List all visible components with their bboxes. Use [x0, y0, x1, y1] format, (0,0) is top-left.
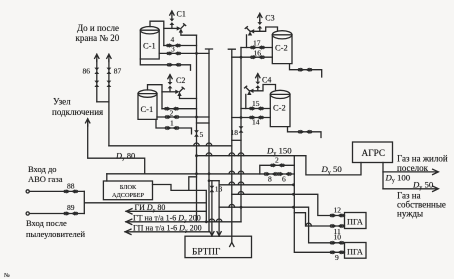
valve 4: [167, 43, 181, 47]
arrow ГТ: [126, 219, 132, 224]
valve 5: [194, 130, 199, 136]
node circle 89: [26, 212, 29, 215]
wire Dy50 line to AGRS: [306, 156, 361, 175]
vessel С-1 no.2: [138, 94, 157, 120]
valve 2 (C-1 group): [165, 107, 179, 111]
wire valve 2 line: [162, 108, 197, 110]
wire adsorber header: [107, 173, 294, 175]
hop Dy150 over K4: [238, 153, 244, 156]
wire 88-89 junction to impulse header: [84, 191, 206, 213]
valve 17: [251, 45, 265, 49]
wire vent tee C2: [162, 91, 176, 93]
node dot K1 x valve3 line: [195, 52, 198, 55]
vessel С-1 no.1: [140, 30, 159, 59]
hop Dy150 over K3: [229, 153, 235, 156]
svg-text:88: 88: [67, 181, 75, 190]
svg-text:C4: C4: [262, 75, 271, 84]
header K3: [228, 49, 235, 242]
wire output line 1: [383, 171, 438, 173]
svg-text:C3: C3: [265, 14, 274, 23]
wire drop1 to БРТПГ: [211, 181, 213, 237]
vent arrow C4: [256, 74, 260, 81]
hop F2 over K4: [238, 192, 244, 195]
wire drain C-2 no.1: [290, 64, 322, 77]
node dot K4 x valve16 line: [240, 56, 243, 59]
text "Вход до АВО газа": [28, 164, 63, 184]
hop F1 over K4: [238, 182, 244, 185]
wire 87 to header K3: [109, 145, 232, 147]
svg-text:С-2: С-2: [275, 43, 288, 53]
valve 87a: [107, 68, 112, 74]
arrow ГИ: [126, 209, 132, 214]
wire vent tee C1: [164, 27, 177, 29]
wire regulator outlet to header K1: [181, 32, 197, 35]
wire riser C-1 no.2: [148, 85, 163, 109]
wire Dy150 header: [197, 155, 306, 157]
text "Узел подключения": [52, 96, 103, 117]
wire valve 4 line: [164, 45, 197, 47]
svg-text:89: 89: [67, 203, 75, 212]
wire adsorber outlet: [153, 185, 207, 222]
node 86 riser: [96, 60, 98, 102]
wire V1 bypass drop to valve 9: [294, 174, 344, 252]
svg-text:Dу 150: Dу 150: [266, 146, 292, 158]
box БЛОК АДСОРБЕР: [103, 181, 152, 200]
svg-text:ПГА: ПГА: [347, 248, 363, 257]
hop ГТ over drop1: [209, 219, 215, 222]
svg-text:С-1: С-1: [143, 41, 156, 51]
wire line 88: [29, 190, 84, 192]
inlet arrow БРТПГ right: [217, 232, 221, 236]
node dot F1 x V1: [292, 183, 295, 186]
svg-text:До и после: До и после: [77, 23, 119, 33]
vent valve C2: [168, 82, 173, 88]
svg-text:крана № 20: крана № 20: [76, 33, 120, 43]
valve 1: [165, 126, 179, 130]
hop Dy150 over K2: [206, 153, 212, 156]
svg-text:Dу 100: Dу 100: [385, 173, 411, 185]
svg-text:С-2: С-2: [273, 103, 286, 113]
text Газ на собственные нужды: [397, 191, 446, 219]
wire regulator outlet to valve17 line: [246, 35, 248, 48]
svg-text:С-1: С-1: [141, 104, 154, 114]
wire drain C-2 no.2: [288, 127, 322, 138]
svg-text:Узел: Узел: [53, 96, 71, 106]
wire valve 17 line: [241, 47, 272, 49]
valve 88: [64, 189, 78, 193]
vessel С-2 no.2: [270, 94, 290, 126]
vent arrow C1: [170, 11, 174, 18]
wire regulator loop right side: [293, 156, 295, 174]
node circle 88: [26, 190, 29, 193]
valve 11: [330, 224, 344, 228]
wire line 89: [29, 213, 84, 215]
svg-text:АДСОРБЕР: АДСОРБЕР: [112, 192, 145, 199]
svg-text:18: 18: [231, 128, 239, 137]
vent end 87: [107, 54, 111, 61]
vent valve C3: [257, 22, 262, 28]
wire adsorber branch to K1: [189, 177, 197, 191]
wire drain C-1 no.2: [156, 119, 192, 133]
svg-text:№: №: [4, 273, 10, 279]
wire riser C-1 no.1: [150, 21, 164, 45]
svg-text:нужды: нужды: [397, 209, 423, 219]
wire drop2 to БРТПГ: [218, 181, 220, 237]
svg-text:86: 86: [83, 67, 91, 76]
wire ГИ impulse line: [126, 210, 206, 212]
node dot K4 x valve14 line: [240, 116, 243, 119]
svg-text:Вход до: Вход до: [28, 164, 57, 174]
svg-text:АВО газа: АВО газа: [28, 174, 63, 184]
box ПГА upper: [345, 213, 367, 229]
text "Вход после пылеуловителей": [26, 218, 85, 239]
hop over K1: [194, 143, 200, 146]
wire K3-K4 bridge: [232, 139, 241, 141]
vent valve C4: [255, 82, 260, 88]
wire drain C-1 no.1: [140, 59, 190, 70]
svg-text:ГИ Dу 80: ГИ Dу 80: [135, 203, 166, 214]
svg-text:ГП на т/а 1-6 Dу 200: ГП на т/а 1-6 Dу 200: [133, 224, 202, 235]
svg-text:Газ на жилой: Газ на жилой: [397, 154, 448, 164]
svg-text:3: 3: [171, 44, 175, 53]
header K2: [206, 49, 213, 232]
wire valve 2 bypass line: [260, 165, 295, 174]
wire output line 2: [383, 188, 438, 190]
header K4: [240, 48, 242, 222]
hop ГТ over drop2: [216, 219, 222, 222]
node dot F3 x K4: [240, 206, 243, 209]
svg-text:подключения: подключения: [52, 107, 103, 117]
regulator valve C-2 no.1: [245, 27, 254, 36]
inlet arrow БРТПГ left: [210, 232, 214, 236]
wire connection node down: [88, 122, 145, 174]
wire ПГА feed F2: [232, 194, 345, 215]
wire regen stub off K2: [209, 180, 219, 182]
box ПГА lower: [345, 243, 367, 259]
svg-text:Dу 50: Dу 50: [412, 179, 434, 191]
svg-text:11: 11: [334, 227, 341, 236]
valve 12: [330, 213, 344, 217]
header K1: [196, 35, 198, 222]
svg-text:17: 17: [253, 38, 261, 47]
svg-text:9: 9: [335, 253, 339, 262]
svg-text:Вход после: Вход после: [26, 218, 67, 228]
text "До и после крана № 20": [76, 23, 120, 43]
valve 9: [330, 250, 344, 254]
svg-text:1: 1: [170, 118, 174, 127]
wire valve 3 line: [159, 52, 209, 54]
mid valve C-1 no.2: [165, 115, 179, 119]
arrow K3 into БРТПГ: [230, 242, 234, 246]
node dot K2 x stub: [208, 179, 211, 182]
valve 86a: [94, 68, 99, 74]
hop over K2: [206, 143, 212, 146]
arrow ГП: [125, 229, 131, 234]
valve 87b: [107, 81, 112, 87]
wire regulator outlet to valve15 line: [245, 94, 247, 108]
svg-text:14: 14: [252, 118, 260, 127]
wire K1-K2 bridge: [197, 122, 210, 124]
regulator valve C-2 no.2: [245, 86, 254, 95]
svg-text:поселок: поселок: [397, 163, 429, 173]
valve 2 (reduction): [271, 163, 285, 167]
svg-text:C1: C1: [177, 10, 186, 19]
valve 3: [167, 51, 181, 55]
svg-text:Dу 50: Dу 50: [321, 164, 343, 176]
vent arrow C2: [168, 75, 172, 82]
valve 15: [250, 106, 264, 110]
valve 13: [210, 186, 215, 192]
regulator valve C-1 no.2: [175, 87, 184, 96]
node dot F2 x V1: [292, 193, 295, 196]
svg-text:16: 16: [254, 48, 262, 57]
valve 86b: [94, 81, 99, 87]
valve 8: [264, 172, 278, 176]
wire ПГА feed F1: [219, 184, 293, 186]
hop valve11 line over F3 drop: [306, 223, 312, 226]
svg-text:5: 5: [200, 130, 204, 139]
vent arrow C3: [258, 13, 262, 20]
regulator valve C-1 no.1: [177, 24, 186, 33]
hop F1 over K3: [229, 182, 235, 185]
valve 14: [250, 115, 264, 119]
hop adsorber header over K3: [229, 171, 235, 174]
node dot F3 x V1: [292, 206, 295, 209]
svg-text:АГРС: АГРС: [362, 149, 386, 159]
wire riser C-2 no.1: [250, 27, 277, 31]
valve 6: [278, 172, 292, 176]
drain valve C-2 no.1: [298, 68, 312, 72]
valve 10: [330, 241, 344, 245]
wire valve 16 line: [232, 56, 272, 58]
vent valve C1: [170, 19, 175, 25]
node dot K1 x mid line: [195, 116, 198, 119]
wire ГТ line: [126, 221, 241, 223]
svg-text:15: 15: [252, 99, 260, 108]
svg-text:ГТ на т/а 1-6 Dу 200: ГТ на т/а 1-6 Dу 200: [133, 214, 201, 225]
wire АГРС output drop: [382, 163, 384, 189]
wire regulator no.2 outlet: [180, 95, 197, 98]
wire ГП line: [125, 231, 209, 233]
box АГРС: [353, 142, 393, 163]
svg-text:6: 6: [282, 174, 286, 183]
arrow output 2: [433, 186, 439, 191]
vessel С-2 no.1: [272, 35, 292, 64]
svg-text:87: 87: [114, 67, 122, 76]
node dot K2 x adsorber header: [208, 172, 211, 175]
valve 89: [64, 211, 78, 215]
wire riser C-2 no.2: [250, 85, 276, 91]
vent end 86: [95, 54, 99, 61]
svg-text:12: 12: [334, 205, 342, 214]
wire valve 15 line: [241, 108, 270, 110]
wire V1 link to valve 11: [294, 213, 344, 226]
svg-text:2: 2: [275, 156, 279, 165]
text Газ на жилой поселок: [397, 154, 448, 174]
valve 16: [251, 55, 265, 59]
svg-text:ПГА: ПГА: [347, 218, 363, 227]
wire ПГА feed F3: [219, 207, 344, 243]
hop adsorber header over K4: [238, 171, 244, 174]
box БРТПГ: [185, 236, 252, 257]
svg-text:пылеуловителей: пылеуловителей: [26, 229, 85, 239]
arrow output 1: [433, 169, 439, 174]
svg-text:4: 4: [171, 35, 175, 44]
wire mid line C-1 no.2: [157, 116, 209, 118]
drain valve C-2 no.2: [298, 130, 312, 134]
node dot impulse x ГТ: [205, 220, 208, 223]
connection node arrow: [86, 119, 90, 126]
svg-text:C2: C2: [176, 76, 185, 85]
svg-text:8: 8: [268, 174, 272, 183]
hop F3 over K3: [229, 204, 235, 207]
node 87 riser: [108, 60, 110, 146]
wire 86-87 link: [97, 101, 109, 103]
svg-text:БЛОК: БЛОК: [120, 184, 137, 191]
valve 18: [239, 126, 244, 132]
drain valve C-1 no.1: [167, 63, 181, 67]
adsorber inlet drop: [106, 174, 108, 181]
svg-text:БРТПГ: БРТПГ: [192, 248, 221, 258]
svg-text:Dу 80: Dу 80: [115, 151, 135, 162]
node dot K1 x Dy150: [195, 154, 198, 157]
wire valve 14 line: [232, 117, 270, 119]
node dot K1 x adsorber header: [195, 172, 198, 175]
